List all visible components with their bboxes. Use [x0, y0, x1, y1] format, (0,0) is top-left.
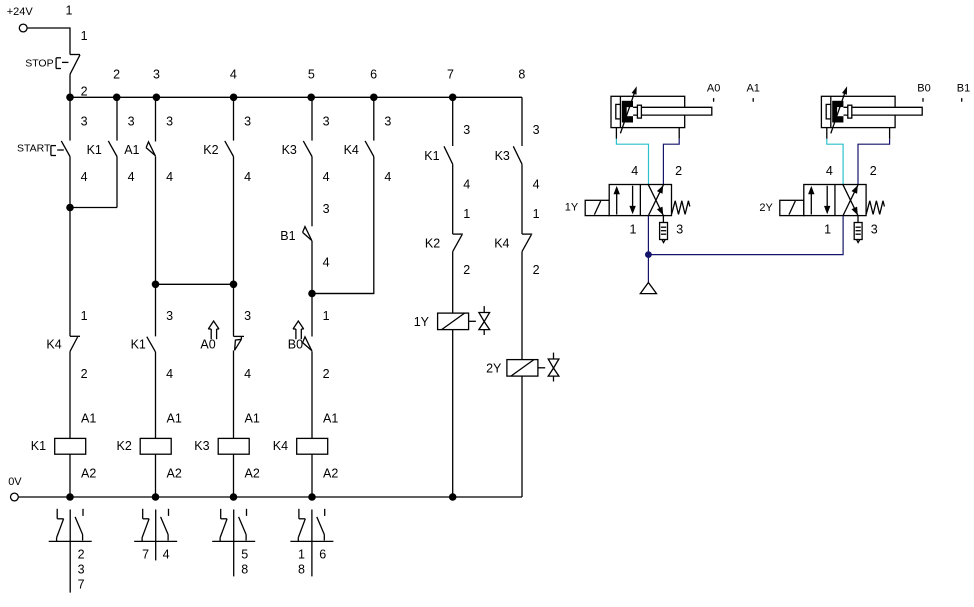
- wire junction to col2: [70, 207, 117, 209]
- svg-text:4: 4: [166, 170, 173, 184]
- svg-text:K1: K1: [31, 439, 46, 453]
- svg-text:3: 3: [128, 115, 135, 129]
- wire bus to K3 contact: [311, 97, 313, 140]
- svg-text:3: 3: [244, 309, 251, 323]
- svg-text:START: START: [17, 142, 51, 154]
- svg-text:3: 3: [153, 68, 160, 82]
- limit-switch contact A0 (NC) col4: [234, 336, 245, 350]
- svg-text:4: 4: [826, 164, 833, 178]
- contact mirror K2: [134, 509, 177, 562]
- svg-text:2: 2: [81, 85, 88, 99]
- svg-text:1: 1: [824, 222, 831, 236]
- svg-text:4: 4: [128, 170, 135, 184]
- sensor arrow B0: [288, 321, 304, 352]
- svg-text:7: 7: [78, 577, 85, 591]
- svg-text:5: 5: [241, 547, 248, 561]
- node col3-col4 link left dot: [152, 281, 160, 289]
- sensor arrow A0: [200, 321, 219, 352]
- terminal 0V: [8, 476, 22, 501]
- terminal +24V: [7, 6, 34, 32]
- pushbutton START (NO): [17, 141, 70, 157]
- wire coil K1 to 0V rail: [69, 454, 71, 497]
- position mark A1: [746, 83, 759, 102]
- wire coil K2 to 0V rail: [155, 454, 157, 497]
- pushbutton STOP (NC): [25, 55, 80, 75]
- supply junction node: [645, 251, 652, 258]
- svg-text:2: 2: [533, 263, 540, 277]
- svg-text:2: 2: [113, 68, 120, 82]
- svg-text:K4: K4: [344, 143, 359, 157]
- wire link col3-col4: [156, 283, 234, 285]
- svg-text:STOP: STOP: [25, 58, 53, 70]
- PNEUMATIC: [565, 83, 971, 294]
- wire bus to K4 contact: [373, 97, 375, 140]
- svg-text:4: 4: [533, 178, 540, 192]
- bus junction dots: [66, 94, 456, 102]
- svg-text:A1: A1: [746, 83, 759, 95]
- contact K4 (NC) col8: [494, 234, 532, 252]
- wire bus to K2 contact: [233, 97, 235, 140]
- hose cylinder A port 4 (cyan): [616, 139, 648, 185]
- svg-text:A1: A1: [245, 411, 260, 425]
- relay coil K3: [194, 438, 249, 454]
- limit-switch contact A1 (NO) col3: [124, 142, 155, 157]
- svg-text:1: 1: [533, 207, 540, 221]
- svg-text:1: 1: [463, 207, 470, 221]
- svg-text:1: 1: [323, 309, 330, 323]
- contact mirror K3: [212, 509, 255, 577]
- svg-text:A2: A2: [245, 467, 260, 481]
- supply drop to source: [647, 255, 649, 283]
- position mark B1: [957, 83, 970, 102]
- svg-text:A0: A0: [707, 83, 720, 95]
- svg-text:A2: A2: [81, 467, 96, 481]
- svg-text:3: 3: [323, 115, 330, 129]
- contact K1 (NO) col3 mid: [131, 337, 156, 352]
- svg-text:+24V: +24V: [7, 6, 34, 18]
- svg-text:K2: K2: [117, 439, 132, 453]
- wire K4 to coil K1: [69, 351, 71, 438]
- contact mirror K4: [290, 509, 333, 577]
- svg-text:4: 4: [230, 68, 237, 82]
- cylinder B (double-acting, cushioned): [821, 86, 922, 139]
- wire B0 to coil K4: [311, 351, 313, 438]
- wire 1Y to 0V rail: [452, 330, 454, 497]
- wire 2Y to 0V rail: [521, 376, 523, 497]
- valve 1Y port labels: [630, 164, 684, 236]
- svg-text:1: 1: [81, 29, 88, 43]
- svg-text:2: 2: [81, 367, 88, 381]
- valve 1Y (4/2-way, solenoid + spring return): [585, 185, 690, 243]
- svg-text:1Y: 1Y: [565, 202, 579, 214]
- svg-text:K2: K2: [425, 237, 440, 251]
- contact K2 (NC) col7: [425, 234, 463, 252]
- svg-text:K2: K2: [203, 143, 218, 157]
- svg-text:5: 5: [308, 68, 315, 82]
- svg-text:3: 3: [323, 202, 330, 216]
- svg-text:3: 3: [384, 115, 391, 129]
- valve link symbol 1Y: [469, 306, 490, 335]
- svg-text:3: 3: [463, 123, 470, 137]
- wire K4 contact down to col5 junction: [312, 157, 374, 294]
- svg-text:2Y: 2Y: [759, 202, 773, 214]
- svg-text:7: 7: [447, 68, 454, 82]
- svg-text:K4: K4: [46, 337, 61, 351]
- wire K1 to K2 contact: [452, 164, 454, 234]
- wire coil K4 to 0V rail: [311, 454, 313, 497]
- position mark B0: [917, 83, 930, 102]
- svg-text:K3: K3: [194, 439, 209, 453]
- svg-text:2: 2: [675, 164, 682, 178]
- svg-text:3: 3: [78, 562, 85, 576]
- wire link col5-col6: [312, 293, 374, 295]
- wire K3 to B1: [311, 157, 313, 227]
- svg-text:3: 3: [166, 115, 173, 129]
- svg-text:8: 8: [518, 68, 525, 82]
- limit-switch contact B0 (NO) col5: [303, 337, 312, 351]
- solenoid coil 2Y: [486, 360, 538, 377]
- svg-text:K4: K4: [494, 237, 509, 251]
- contact K4 (NC) col1: [46, 336, 80, 351]
- svg-text:1: 1: [630, 222, 637, 236]
- relay coil K4: [273, 438, 328, 454]
- svg-text:4: 4: [244, 367, 251, 381]
- compressed air source triangle: [640, 283, 656, 294]
- valve link symbol 2Y: [538, 353, 559, 382]
- svg-text:2: 2: [78, 547, 85, 561]
- svg-text:A2: A2: [323, 467, 338, 481]
- svg-text:3: 3: [533, 123, 540, 137]
- svg-text:B1: B1: [280, 229, 295, 243]
- svg-text:K1: K1: [424, 149, 439, 163]
- wire K3 to K4 contact: [521, 164, 523, 234]
- svg-text:4: 4: [323, 256, 330, 270]
- svg-text:2: 2: [870, 164, 877, 178]
- wire coil K3 to 0V rail: [233, 454, 235, 497]
- svg-text:K1: K1: [87, 143, 102, 157]
- svg-text:4: 4: [166, 367, 173, 381]
- svg-text:4: 4: [631, 164, 638, 178]
- svg-text:1: 1: [66, 3, 73, 17]
- svg-text:1: 1: [81, 309, 88, 323]
- wire bus to A1 contact: [155, 97, 157, 141]
- svg-text:2: 2: [463, 263, 470, 277]
- contact K4 (NO) col6: [344, 141, 374, 157]
- junction node col5-col6: [308, 290, 316, 298]
- wire K1 to coil K2: [155, 352, 157, 439]
- svg-text:4: 4: [463, 178, 470, 192]
- wire A1 contact down to K1 contact: [155, 156, 157, 336]
- svg-text:8: 8: [298, 562, 305, 576]
- wire B1 down through junction to B0: [311, 241, 313, 337]
- svg-text:7: 7: [142, 547, 149, 561]
- svg-text:3: 3: [871, 222, 878, 236]
- svg-text:4: 4: [384, 170, 391, 184]
- rail junction dots: [66, 493, 456, 501]
- position mark A0: [707, 83, 720, 102]
- svg-text:3: 3: [81, 115, 88, 129]
- rung numbers 2-8: [113, 68, 525, 82]
- top bus rail: [70, 96, 522, 98]
- svg-text:A1: A1: [81, 411, 96, 425]
- svg-text:3: 3: [244, 115, 251, 129]
- bottom 0V rail: [18, 496, 522, 498]
- hose cylinder A port 2 (navy): [663, 139, 679, 185]
- svg-text:A1: A1: [124, 143, 139, 157]
- svg-text:A0: A0: [200, 338, 215, 352]
- svg-text:B0: B0: [288, 338, 303, 352]
- relay coil K1: [31, 438, 86, 454]
- solenoid coil 1Y: [414, 313, 469, 330]
- wire STOP to bus: [69, 74, 71, 97]
- cylinder A (double-acting, cushioned): [611, 86, 712, 139]
- svg-text:2Y: 2Y: [486, 361, 502, 375]
- wire bus corner to K3 contact: [521, 97, 523, 146]
- contact mirror K1: [49, 509, 92, 593]
- hose cylinder B port 2 (navy): [858, 139, 890, 185]
- contact K1 (NO) col2: [87, 141, 117, 157]
- svg-text:K4: K4: [273, 439, 288, 453]
- svg-text:6: 6: [319, 547, 326, 561]
- svg-text:B0: B0: [917, 83, 930, 95]
- wire bus to K1 contact: [452, 97, 454, 146]
- svg-text:6: 6: [370, 68, 377, 82]
- svg-text:0V: 0V: [8, 476, 22, 488]
- junction node col1 self-hold: [66, 204, 74, 212]
- contact K2 (NO) col4: [203, 141, 233, 157]
- svg-text:3: 3: [676, 222, 683, 236]
- contact K3 (NO) col8: [495, 146, 522, 164]
- wire A0 to coil K3: [233, 350, 235, 438]
- svg-text:4: 4: [244, 170, 251, 184]
- hose cylinder B port 4 (cyan): [827, 139, 843, 185]
- svg-text:4: 4: [81, 170, 88, 184]
- wire bus to START: [69, 97, 71, 140]
- svg-text:B1: B1: [957, 83, 970, 95]
- svg-text:A2: A2: [167, 467, 182, 481]
- limit-switch contact B1 (NO) col5: [280, 227, 312, 244]
- wire from +24V terminal to rung 1: [27, 28, 70, 55]
- supply line valve 1 port 1: [647, 216, 649, 255]
- valve 2Y port labels: [824, 164, 878, 236]
- svg-text:4: 4: [323, 170, 330, 184]
- svg-text:K3: K3: [495, 149, 510, 163]
- svg-text:4: 4: [163, 547, 170, 561]
- wire bus to K1 contact: [116, 97, 118, 140]
- wire K2 contact down to A0 contact: [233, 157, 235, 337]
- svg-text:8: 8: [241, 562, 248, 576]
- svg-text:A1: A1: [323, 411, 338, 425]
- node col3-col4 link right dot: [230, 281, 238, 289]
- contact K3 (NO) col5: [282, 141, 312, 157]
- svg-text:1: 1: [298, 547, 305, 561]
- svg-text:3: 3: [166, 309, 173, 323]
- wire K4 to valve solenoid 2Y: [521, 252, 523, 360]
- svg-text:K1: K1: [131, 337, 146, 351]
- svg-text:K3: K3: [282, 143, 297, 157]
- wire K2 to valve solenoid 1Y: [452, 252, 454, 314]
- relay coil K2: [117, 438, 172, 454]
- valve 2Y (4/2-way, solenoid + spring return): [780, 185, 885, 243]
- wire K1 contact to junction: [116, 157, 118, 208]
- svg-text:1Y: 1Y: [414, 315, 430, 329]
- contact K1 (NO) col7: [424, 146, 452, 164]
- wire START down through junction to K4 contact: [69, 157, 71, 337]
- svg-text:2: 2: [323, 367, 330, 381]
- supply line to valve 2 port 1: [648, 216, 843, 255]
- svg-text:A1: A1: [167, 411, 182, 425]
